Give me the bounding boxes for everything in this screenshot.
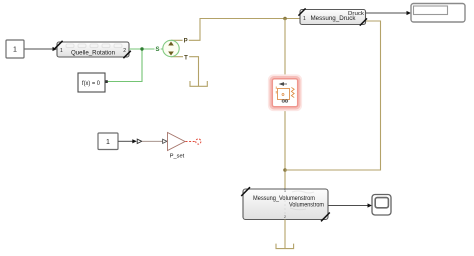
- svg-text:Quelle_Rotation: Quelle_Rotation: [71, 51, 115, 57]
- wire signal Messung_Druck to Display: [366, 11, 412, 15]
- svg-text:1: 1: [303, 16, 306, 22]
- wire physical tan Messung_Volumenstrom to tank: [284, 220, 286, 249]
- svg-text:1: 1: [60, 48, 63, 54]
- svg-text:Volumenstrom: Volumenstrom: [289, 202, 324, 208]
- wire signal Constant2 stub: [118, 139, 142, 143]
- wire physical green branch to solver: [108, 49, 143, 82]
- open arrowhead at gain input: [163, 139, 167, 143]
- svg-text:1: 1: [13, 47, 17, 54]
- wire physical tan pump P to top bus: [171, 19, 300, 41]
- wire physical green Quelle_Rotation to pump S: [129, 48, 163, 50]
- wire physical tan pump T down to tank: [171, 57, 199, 87]
- tank symbol under pump T: [190, 81, 207, 86]
- svg-text:S: S: [155, 47, 159, 53]
- junction tan node lower: [283, 168, 287, 172]
- svg-text:1: 1: [106, 139, 110, 146]
- subsystem Messung_Volumenstrom: [241, 187, 330, 221]
- gain block P_set triangle: [168, 133, 186, 151]
- wire physical tan vertical through relief valve: [284, 19, 286, 190]
- tank symbol bottom: [276, 244, 294, 249]
- wire red dashed unconnected: [186, 141, 196, 143]
- display block Display: [411, 4, 465, 23]
- svg-text:T: T: [184, 56, 188, 62]
- wire signal Constant1 to Quelle_Rotation: [24, 47, 57, 51]
- junction green node: [140, 47, 143, 50]
- wire faded to gain P_set: [142, 140, 163, 142]
- scope block Scope: [372, 195, 391, 216]
- subsystem Quelle_Rotation: [55, 41, 131, 58]
- svg-text:P_set: P_set: [170, 154, 185, 160]
- subsystem Messung_Druck: [298, 8, 367, 25]
- svg-text:P: P: [184, 39, 188, 45]
- svg-text:2: 2: [123, 48, 126, 54]
- pump U_pump circle: [163, 40, 179, 56]
- constant block Constant1 value 1: [6, 40, 24, 58]
- relief valve block highlighted: [270, 76, 301, 110]
- port label P: [183, 36, 189, 44]
- junction tan node top bus: [283, 17, 287, 21]
- wire signal Messung_Volumenstrom to Scope: [328, 203, 372, 207]
- svg-text:Druck: Druck: [348, 11, 364, 17]
- svg-text:Messung_Volumenstrom: Messung_Volumenstrom: [253, 195, 315, 202]
- constant block Constant2 value 1: [98, 133, 118, 150]
- svg-text:f(x) = 0: f(x) = 0: [82, 81, 101, 87]
- unconnected port marker red dashed circle: [196, 139, 201, 144]
- solver configuration block f(x)=0: [78, 73, 108, 92]
- port label S: [154, 45, 160, 53]
- wire physical tan return path: [285, 21, 381, 170]
- port label T: [183, 53, 189, 61]
